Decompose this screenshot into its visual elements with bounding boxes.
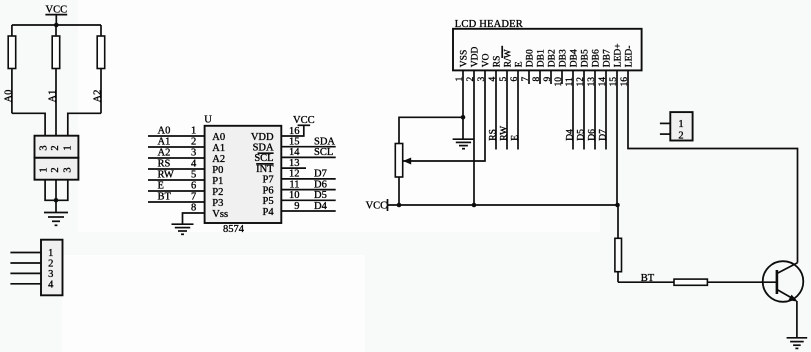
svg-text:R/W: R/W <box>504 49 514 67</box>
svg-text:1: 1 <box>191 125 196 136</box>
svg-text:P1: P1 <box>212 176 223 187</box>
wire U1 pin 16 (VDD) to VCC <box>281 125 304 136</box>
svg-text:2: 2 <box>678 130 683 141</box>
svg-text:2: 2 <box>48 259 53 270</box>
svg-text:SCL: SCL <box>314 147 333 158</box>
wire LCD pin3 VO to wiper <box>403 70 485 161</box>
svg-text:14: 14 <box>289 147 300 158</box>
power VCC at U1 pin16 <box>293 115 315 126</box>
svg-text:Vss: Vss <box>212 209 228 220</box>
svg-text:2: 2 <box>50 167 61 172</box>
svg-text:P5: P5 <box>263 196 274 207</box>
svg-text:A0: A0 <box>212 132 225 143</box>
pin number 14 / label SCL <box>289 147 333 158</box>
ground (jumper block) <box>44 213 68 226</box>
svg-text:P7: P7 <box>263 175 274 186</box>
svg-text:4: 4 <box>191 158 197 169</box>
wire U1 pin 11 <box>281 189 335 191</box>
svg-text:A1: A1 <box>212 143 225 154</box>
wire J2 pin1 <box>660 122 670 124</box>
label A0 / pin number 1 <box>158 125 197 136</box>
pin number 10 / label D5 <box>289 190 327 201</box>
svg-text:BT: BT <box>158 191 172 202</box>
wire J2 pin2 <box>660 133 670 135</box>
svg-text:VDD: VDD <box>251 132 274 143</box>
junction dot top-left rail <box>54 23 59 28</box>
junction dot LCD pin1 <box>461 115 466 120</box>
svg-text:A1: A1 <box>158 136 171 147</box>
svg-text:LED-: LED- <box>625 46 635 68</box>
svg-text:5: 5 <box>191 169 196 180</box>
label net E <box>510 135 520 141</box>
svg-text:D6: D6 <box>587 129 597 141</box>
svg-text:VCC: VCC <box>366 201 388 212</box>
svg-text:2: 2 <box>50 145 61 150</box>
wire LCD pin2 VDD to VCC rail <box>473 70 475 205</box>
svg-text:INT: INT <box>256 164 274 175</box>
svg-text:DB4: DB4 <box>570 49 580 67</box>
svg-text:RS: RS <box>493 56 503 68</box>
svg-text:P3: P3 <box>212 198 223 209</box>
wire J1 pin3 <box>10 272 41 274</box>
wire VCC rail <box>388 204 619 206</box>
ground (LCD VSS) <box>453 139 475 149</box>
label A0 (resistor net) <box>3 90 14 103</box>
svg-text:3: 3 <box>62 167 73 172</box>
connector J2 (2-pin) <box>670 112 692 141</box>
svg-text:RW: RW <box>158 169 174 180</box>
pin number 9 / label D4 <box>294 201 327 212</box>
svg-text:8574: 8574 <box>223 224 245 235</box>
svg-text:10: 10 <box>289 190 300 201</box>
label net D5 <box>576 129 586 141</box>
label LCD HEADER pin names <box>460 43 635 67</box>
connector jumper block bottom half (pins 1 2 3) <box>35 158 79 180</box>
label overline R/W <box>501 46 503 58</box>
wire LCD pin13 (D6) stub <box>594 70 596 149</box>
pin number 16 <box>289 126 300 137</box>
wire LCD pin12 (D5) stub <box>583 70 585 149</box>
label A2 / pin number 3 <box>158 147 197 158</box>
svg-text:DB6: DB6 <box>592 49 602 67</box>
wire VCC rail top-left <box>12 24 101 26</box>
wire U1 pin 8 (Vss) to ground <box>183 213 205 224</box>
svg-text:13: 13 <box>289 158 300 169</box>
wire U1 pin 9 <box>281 210 335 212</box>
svg-text:A0: A0 <box>3 90 14 103</box>
svg-text:A0: A0 <box>158 125 171 136</box>
wire U1 pin 10 <box>281 199 335 201</box>
svg-text:D7: D7 <box>314 169 327 180</box>
wire LCD pin7 stub (DB0) <box>528 70 530 84</box>
wire LCD pin16 LED- to transistor collector <box>628 70 798 262</box>
wire pin1 node to potentiometer top <box>399 117 463 143</box>
label overline SCL <box>258 152 274 154</box>
svg-text:9: 9 <box>294 201 299 212</box>
wire LCD pin15 LED+ to VCC rail <box>616 70 618 205</box>
wire U1 pin 13 <box>281 167 306 169</box>
pin number 13 <box>289 158 300 169</box>
wire base resistor to transistor Q1 <box>707 281 777 283</box>
label net D6 <box>587 129 597 141</box>
resistor R3 (A2 pull-up) <box>97 25 105 113</box>
wire LCD pin4 (RS) stub <box>495 70 497 149</box>
svg-text:E: E <box>515 61 525 67</box>
svg-text:SDA: SDA <box>253 143 274 154</box>
wire LCD pin1 VSS down <box>462 70 464 139</box>
label U1 inside pin names <box>212 132 274 220</box>
svg-text:3: 3 <box>48 269 53 280</box>
svg-text:SDA: SDA <box>314 137 335 148</box>
wire BT node to base resistor <box>618 281 674 283</box>
svg-text:D5: D5 <box>314 190 327 201</box>
label net D4 <box>565 129 575 141</box>
wire R3 to jumper <box>68 113 101 135</box>
svg-text:DB3: DB3 <box>559 49 569 67</box>
wire jumper outputs to ground node <box>45 180 68 213</box>
svg-text:LED+: LED+ <box>614 43 624 67</box>
svg-text:RS: RS <box>488 129 498 141</box>
label RW / pin number 5 <box>158 169 197 180</box>
wire J1 pin1 <box>10 252 41 254</box>
svg-text:P2: P2 <box>212 187 223 198</box>
wire U1 pin 1 (A0) <box>148 135 205 137</box>
wire J1 pin2 <box>10 262 41 264</box>
connector LCD HEADER body <box>453 19 642 71</box>
svg-text:12: 12 <box>289 169 300 180</box>
label A1 (resistor net) <box>48 90 59 103</box>
label net D7 <box>598 129 608 141</box>
wire LCD pin10 stub (DB3) <box>561 70 563 84</box>
svg-text:7: 7 <box>191 191 196 202</box>
wire LCD pin9 stub (DB2) <box>550 70 552 84</box>
pin numbers LCD HEADER 1-16 <box>455 77 630 87</box>
wire LCD pin14 (D7) stub <box>605 70 607 149</box>
svg-text:1: 1 <box>39 167 50 172</box>
wire U1 pin 15 <box>281 146 335 148</box>
svg-text:DB0: DB0 <box>526 49 536 67</box>
svg-text:D5: D5 <box>576 129 586 141</box>
svg-text:VCC: VCC <box>293 115 315 126</box>
potentiometer RP1 body <box>395 144 402 206</box>
svg-text:1: 1 <box>62 145 73 150</box>
wire U1 pin 4 (RS) <box>148 168 205 170</box>
wire J1 pin4 <box>10 283 41 285</box>
junction dot VDD-VCC rail <box>472 203 477 208</box>
svg-text:DB1: DB1 <box>537 49 547 67</box>
wire U1 pin 5 (RW) <box>148 179 205 181</box>
wire U1 pin 12 <box>281 178 335 180</box>
svg-text:D4: D4 <box>314 201 328 212</box>
wire LCD pin11 (D4) stub <box>572 70 574 149</box>
label A1 / pin number 2 <box>158 136 197 147</box>
wire U1 pin 14 <box>281 156 335 158</box>
connector jumper block top half (pins 3 2 1) <box>35 136 79 158</box>
svg-text:A1: A1 <box>48 90 59 103</box>
svg-text:P6: P6 <box>263 185 274 196</box>
svg-text:U: U <box>204 114 212 125</box>
wire U1 pin 7 (BT) <box>148 201 205 203</box>
label BT <box>641 273 655 284</box>
svg-text:E: E <box>158 180 164 191</box>
label net RW <box>499 126 509 141</box>
pin number 8 <box>191 202 196 213</box>
junction dot jumper ground node <box>54 198 59 203</box>
svg-text:D4: D4 <box>565 129 575 141</box>
svg-text:2: 2 <box>191 136 196 147</box>
pin number 11 / label D6 <box>289 179 326 190</box>
svg-text:3: 3 <box>39 145 50 150</box>
potentiometer RP1 wiper arrow <box>403 158 411 165</box>
svg-text:DB7: DB7 <box>603 49 613 67</box>
label E / pin number 6 <box>158 180 197 191</box>
pin number 12 / label D7 <box>289 169 327 180</box>
label A2 (resistor net) <box>92 90 103 103</box>
svg-text:DB5: DB5 <box>581 49 591 67</box>
power VCC rail label <box>366 199 388 212</box>
ground (Q1 emitter) <box>787 338 808 349</box>
power VCC top-left <box>45 5 67 25</box>
IC U1 (8574) <box>204 114 281 235</box>
ground (U1 Vss) <box>172 224 194 234</box>
svg-text:P4: P4 <box>263 207 275 218</box>
svg-text:VO: VO <box>482 53 492 67</box>
svg-text:P0: P0 <box>212 165 223 176</box>
svg-text:4: 4 <box>48 279 54 290</box>
resistor R5 (base series) <box>674 279 707 285</box>
svg-text:1: 1 <box>48 248 53 259</box>
wire U1 pin 3 (A2) <box>148 157 205 159</box>
wire LCD pin8 stub (DB1) <box>539 70 541 84</box>
wire U1 pin 2 (A1) <box>148 146 205 148</box>
svg-text:6: 6 <box>191 180 196 191</box>
svg-text:A2: A2 <box>212 154 225 165</box>
svg-text:15: 15 <box>289 137 300 148</box>
label overline INT <box>256 163 273 165</box>
resistor R1 (A0 pull-up) <box>8 25 16 113</box>
wire R1 to jumper <box>12 113 45 135</box>
svg-text:A2: A2 <box>158 147 171 158</box>
svg-text:11: 11 <box>289 179 299 190</box>
svg-text:RS: RS <box>158 158 171 169</box>
connector J1 (4-pin header) <box>41 240 63 296</box>
svg-text:8: 8 <box>191 202 196 213</box>
svg-text:D7: D7 <box>598 129 608 141</box>
svg-text:VSS: VSS <box>460 50 470 67</box>
junction dot pot-VCC rail <box>397 203 402 208</box>
svg-text:16: 16 <box>289 126 300 137</box>
svg-text:D6: D6 <box>314 179 327 190</box>
wire U1 pin 6 (E) <box>148 190 205 192</box>
wire LCD pin6 (E) stub <box>517 70 519 149</box>
label RS / pin number 4 <box>158 158 197 169</box>
svg-text:E: E <box>510 135 520 141</box>
svg-text:RW: RW <box>499 126 509 141</box>
junction dot LED+-VCC rail <box>615 203 620 208</box>
svg-text:DB2: DB2 <box>548 49 558 67</box>
svg-text:VDD: VDD <box>471 46 481 67</box>
svg-text:A2: A2 <box>92 90 103 103</box>
transistor Q1 (NPN) <box>763 261 804 337</box>
resistor R2 (A1 pull-up) <box>52 25 60 136</box>
wire LCD pin5 (RW) stub <box>506 70 508 149</box>
resistor R4 (LED+ series) <box>615 205 622 282</box>
svg-text:3: 3 <box>191 147 196 158</box>
label net RS <box>488 129 498 141</box>
svg-text:SCL: SCL <box>254 153 273 164</box>
pin number 15 / label SDA <box>289 137 335 148</box>
svg-text:1: 1 <box>678 119 683 130</box>
label BT / pin number 7 <box>158 191 197 202</box>
